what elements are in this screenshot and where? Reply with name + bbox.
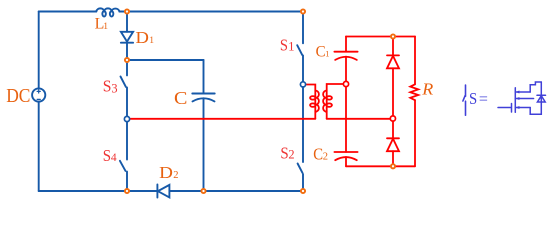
svg-text:S: S (103, 77, 112, 96)
svg-text:1: 1 (149, 35, 154, 46)
svg-text:C: C (313, 145, 323, 164)
svg-text:3: 3 (111, 81, 117, 95)
svg-text:2: 2 (288, 147, 294, 161)
svg-text:R: R (421, 80, 434, 99)
svg-text:C: C (174, 88, 187, 108)
svg-text:2: 2 (323, 152, 328, 163)
svg-text:1: 1 (288, 39, 294, 53)
svg-text:C: C (316, 44, 326, 61)
svg-text:2: 2 (173, 170, 178, 181)
svg-text:D: D (136, 28, 150, 47)
svg-text:1: 1 (103, 21, 108, 32)
svg-text:S: S (280, 35, 288, 54)
svg-text:S: S (469, 89, 477, 108)
svg-text:DC: DC (6, 85, 30, 107)
svg-text:S: S (103, 146, 111, 165)
svg-text:=: = (479, 91, 488, 108)
svg-text:D: D (159, 163, 173, 182)
svg-text:4: 4 (111, 152, 117, 164)
svg-text:1: 1 (325, 49, 329, 59)
